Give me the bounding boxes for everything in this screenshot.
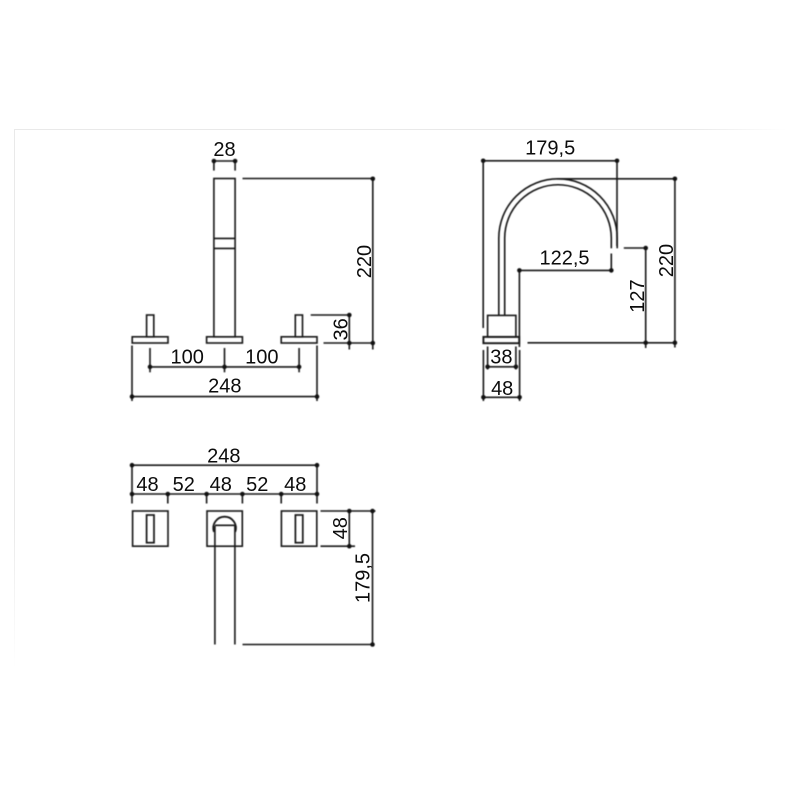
svg-text:122,5: 122,5 xyxy=(539,247,589,269)
svg-text:100: 100 xyxy=(171,347,204,369)
svg-text:100: 100 xyxy=(245,347,278,369)
svg-text:48: 48 xyxy=(284,474,306,496)
svg-text:36: 36 xyxy=(330,318,352,340)
svg-text:48: 48 xyxy=(330,517,352,539)
svg-text:48: 48 xyxy=(210,474,232,496)
svg-text:48: 48 xyxy=(491,378,513,400)
svg-text:127: 127 xyxy=(627,279,649,312)
svg-text:38: 38 xyxy=(490,347,512,369)
svg-text:179,5: 179,5 xyxy=(525,138,575,160)
svg-text:48: 48 xyxy=(136,474,158,496)
svg-text:220: 220 xyxy=(354,245,376,278)
svg-text:28: 28 xyxy=(213,139,235,161)
svg-text:248: 248 xyxy=(208,375,241,397)
svg-text:248: 248 xyxy=(207,446,240,468)
svg-text:52: 52 xyxy=(173,474,195,496)
svg-text:179,5: 179,5 xyxy=(352,553,374,603)
svg-text:52: 52 xyxy=(246,474,268,496)
svg-text:220: 220 xyxy=(656,244,678,277)
